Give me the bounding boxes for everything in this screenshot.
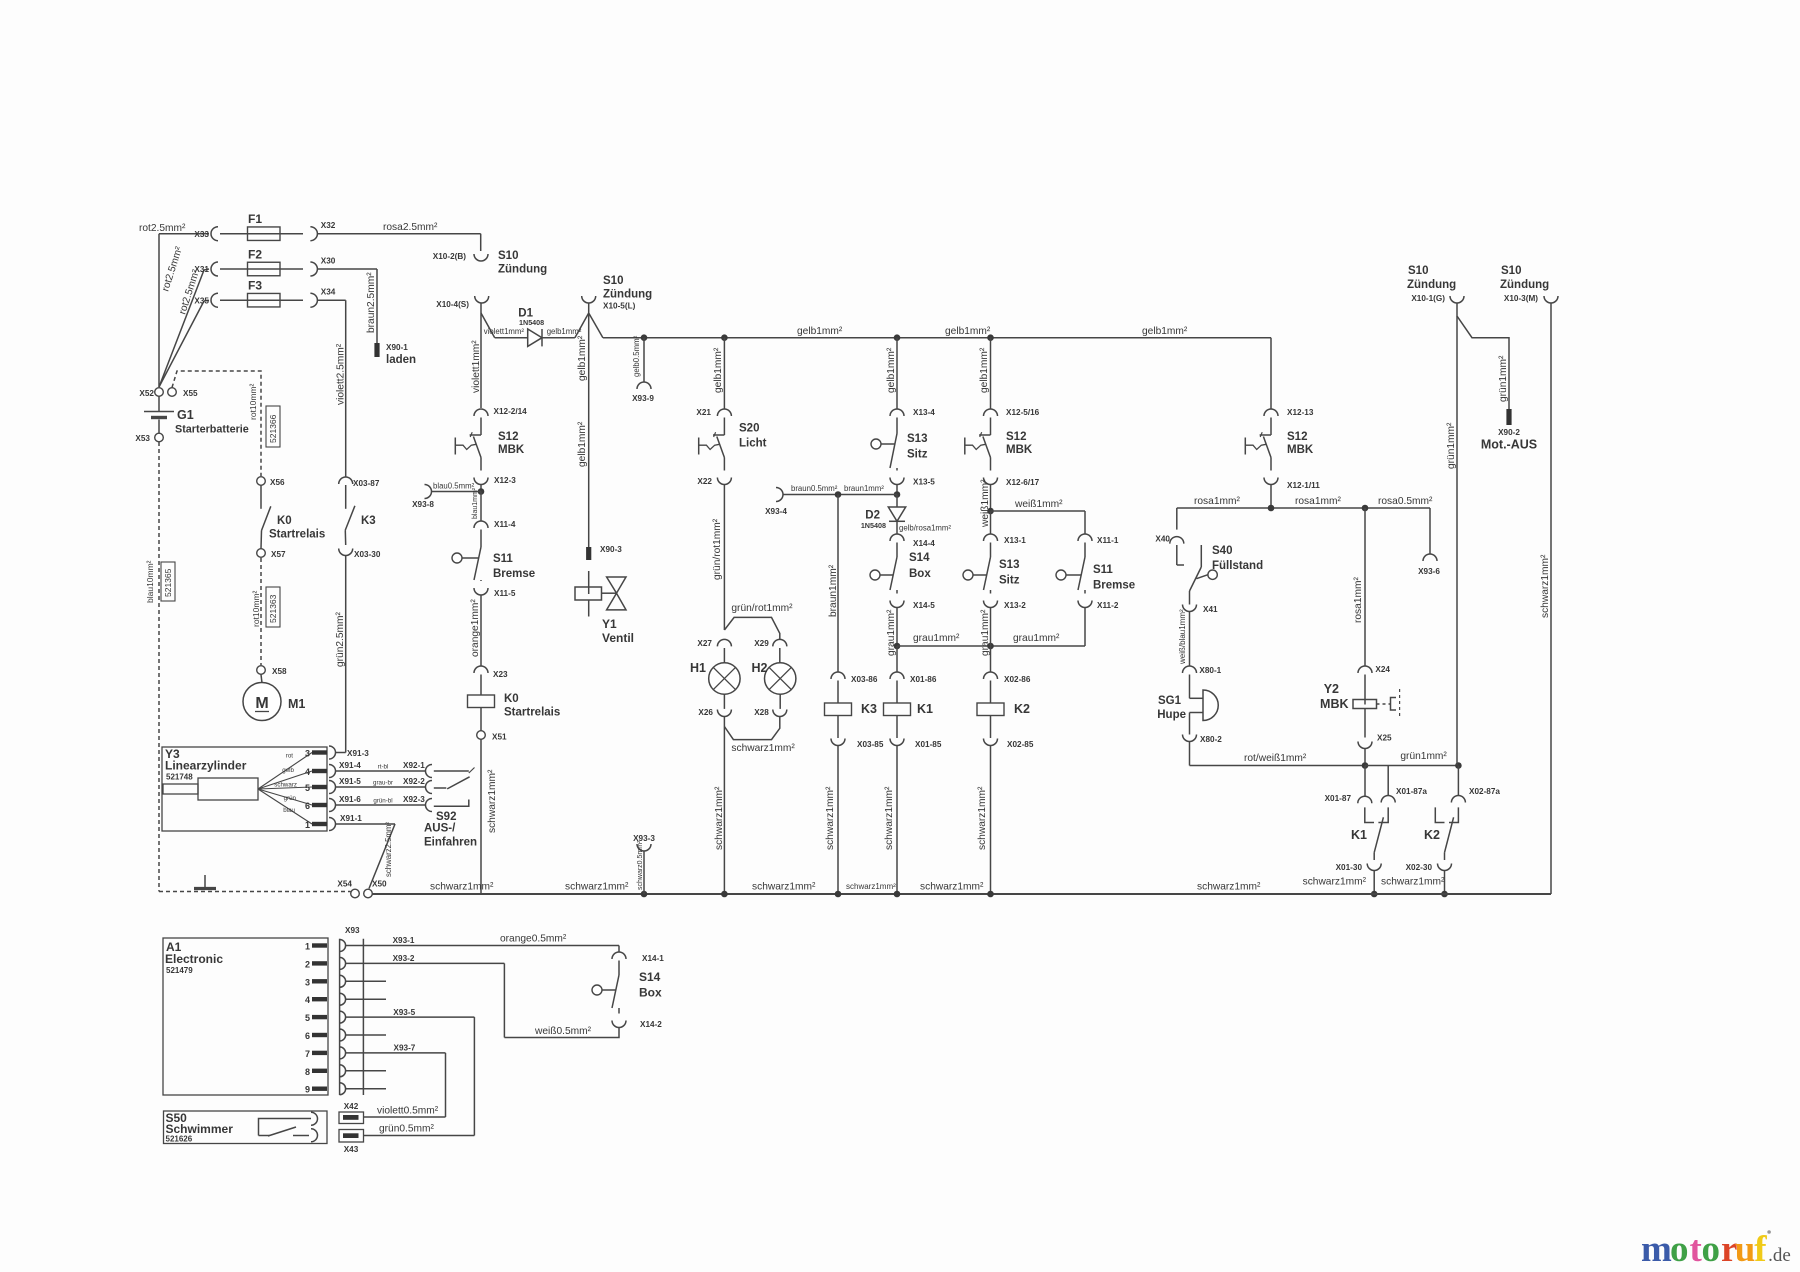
- svg-text:X93-8: X93-8: [412, 500, 434, 509]
- svg-text:weiß1mm²: weiß1mm²: [980, 479, 991, 528]
- svg-text:weiß0.5mm²: weiß0.5mm²: [534, 1026, 592, 1037]
- svg-text:X23: X23: [493, 670, 508, 679]
- svg-text:grün2.5mm²: grün2.5mm²: [335, 611, 346, 667]
- svg-text:G1: G1: [177, 408, 194, 422]
- svg-text:X93-5: X93-5: [393, 1008, 415, 1017]
- svg-text:schwarz1mm²: schwarz1mm²: [884, 786, 895, 850]
- svg-text:grün0.5mm²: grün0.5mm²: [379, 1124, 435, 1135]
- svg-text:rt-bl: rt-bl: [378, 764, 389, 771]
- svg-text:6: 6: [305, 801, 310, 811]
- svg-text:X03-85: X03-85: [857, 740, 884, 749]
- svg-text:F2: F2: [248, 248, 262, 262]
- svg-text:X14-2: X14-2: [640, 1020, 662, 1029]
- svg-text:X14-5: X14-5: [913, 601, 935, 610]
- svg-text:521366: 521366: [268, 414, 278, 443]
- svg-text:gelb0.5mm²: gelb0.5mm²: [632, 335, 641, 377]
- svg-text:X25: X25: [1377, 734, 1392, 743]
- svg-text:Startrelais: Startrelais: [504, 707, 560, 719]
- svg-text:S92: S92: [436, 811, 456, 823]
- svg-text:MBK: MBK: [1320, 697, 1348, 711]
- svg-text:rosa1mm²: rosa1mm²: [1295, 496, 1341, 507]
- svg-text:schwarz1mm²: schwarz1mm²: [1381, 877, 1445, 888]
- svg-text:X80-1: X80-1: [1199, 666, 1221, 675]
- svg-text:violett1mm²: violett1mm²: [484, 327, 525, 336]
- svg-text:S11: S11: [1093, 564, 1113, 576]
- svg-text:weiß1mm²: weiß1mm²: [1014, 499, 1063, 510]
- svg-text:blau1mm²: blau1mm²: [472, 487, 479, 519]
- svg-text:grau1mm²: grau1mm²: [1013, 633, 1060, 644]
- svg-text:X11-5: X11-5: [494, 589, 516, 598]
- svg-text:X12-2/14: X12-2/14: [494, 407, 528, 416]
- svg-text:X10-1(G): X10-1(G): [1411, 294, 1445, 303]
- svg-text:grau1mm²: grau1mm²: [980, 609, 991, 656]
- svg-text:X93-2: X93-2: [393, 954, 415, 963]
- svg-text:9: 9: [305, 1085, 310, 1095]
- svg-text:X43: X43: [344, 1145, 359, 1154]
- svg-text:rot2.5mm²: rot2.5mm²: [139, 223, 186, 234]
- svg-text:X41: X41: [1203, 605, 1218, 614]
- svg-text:X12-1/11: X12-1/11: [1287, 481, 1320, 490]
- svg-text:blau10mm²: blau10mm²: [145, 560, 155, 603]
- svg-text:schwarz1mm²: schwarz1mm²: [1303, 877, 1367, 888]
- svg-text:X11-1: X11-1: [1097, 536, 1119, 545]
- svg-text:grün: grün: [284, 795, 297, 802]
- svg-text:Zündung: Zündung: [603, 289, 652, 301]
- svg-text:gelb1mm²: gelb1mm²: [577, 335, 588, 381]
- svg-text:X12-6/17: X12-6/17: [1006, 478, 1040, 487]
- svg-text:F3: F3: [248, 279, 262, 293]
- svg-text:X54: X54: [337, 880, 352, 889]
- svg-text:gelb1mm²: gelb1mm²: [945, 326, 991, 337]
- svg-text:grün1mm²: grün1mm²: [1498, 355, 1509, 402]
- svg-text:X14-1: X14-1: [642, 954, 664, 963]
- svg-text:S14: S14: [909, 552, 930, 564]
- svg-text:X28: X28: [754, 708, 769, 717]
- svg-text:X12-5/16: X12-5/16: [1006, 408, 1040, 417]
- svg-text:X93-9: X93-9: [632, 394, 654, 403]
- svg-text:K2: K2: [1424, 828, 1440, 842]
- svg-text:S12: S12: [1287, 431, 1307, 443]
- svg-text:X10-3(M): X10-3(M): [1504, 294, 1538, 303]
- svg-text:X02-85: X02-85: [1007, 740, 1034, 749]
- svg-text:521626: 521626: [166, 1135, 193, 1144]
- svg-text:.de: .de: [1768, 1245, 1791, 1266]
- svg-text:grau1mm²: grau1mm²: [886, 609, 897, 656]
- svg-text:X34: X34: [321, 288, 336, 297]
- svg-text:rosa0.5mm²: rosa0.5mm²: [1378, 496, 1433, 507]
- svg-text:schwarz1mm²: schwarz1mm²: [825, 786, 836, 850]
- svg-text:MBK: MBK: [1287, 444, 1314, 456]
- svg-text:X93-4: X93-4: [765, 507, 787, 516]
- svg-text:o: o: [1702, 1229, 1721, 1270]
- svg-text:521479: 521479: [166, 966, 193, 975]
- svg-text:schwarz1mm²: schwarz1mm²: [565, 882, 629, 893]
- svg-text:4: 4: [305, 995, 310, 1005]
- svg-text:1: 1: [305, 820, 310, 830]
- svg-text:7: 7: [305, 1049, 310, 1059]
- svg-text:X11-4: X11-4: [494, 520, 516, 529]
- svg-text:8: 8: [305, 1067, 310, 1077]
- svg-text:grün/rot1mm²: grün/rot1mm²: [731, 603, 793, 614]
- svg-text:grün-bl: grün-bl: [373, 798, 392, 805]
- svg-text:braun0.5mm²: braun0.5mm²: [791, 484, 838, 493]
- svg-text:X35: X35: [194, 296, 209, 305]
- svg-text:Zündung: Zündung: [1407, 279, 1456, 291]
- svg-text:X10-4(S): X10-4(S): [436, 300, 469, 309]
- svg-text:S12: S12: [1006, 431, 1026, 443]
- svg-text:X58: X58: [272, 667, 287, 676]
- svg-text:X03-87: X03-87: [353, 479, 380, 488]
- svg-text:X53: X53: [135, 434, 150, 443]
- svg-text:X91-3: X91-3: [347, 749, 369, 758]
- svg-text:X03-86: X03-86: [851, 675, 878, 684]
- svg-text:rot/weiß1mm²: rot/weiß1mm²: [1244, 753, 1307, 764]
- svg-text:Zündung: Zündung: [1500, 279, 1549, 291]
- svg-text:X90-2: X90-2: [1498, 428, 1520, 437]
- svg-text:X01-87: X01-87: [1325, 794, 1352, 803]
- svg-text:Mot.-AUS: Mot.-AUS: [1481, 438, 1537, 452]
- svg-text:X33: X33: [194, 230, 209, 239]
- svg-text:schwarz1mm²: schwarz1mm²: [846, 882, 896, 891]
- svg-text:Bremse: Bremse: [493, 568, 535, 580]
- svg-text:rot10mm²: rot10mm²: [251, 590, 261, 627]
- svg-text:X56: X56: [270, 478, 285, 487]
- svg-text:1N5408: 1N5408: [519, 318, 544, 327]
- svg-text:X92-2: X92-2: [403, 777, 425, 786]
- svg-text:X92-3: X92-3: [403, 795, 425, 804]
- svg-text:3: 3: [305, 749, 310, 759]
- svg-text:Box: Box: [909, 568, 931, 580]
- svg-text:X90-1: X90-1: [386, 343, 408, 352]
- svg-text:S12: S12: [498, 431, 518, 443]
- svg-text:violett0.5mm²: violett0.5mm²: [377, 1106, 439, 1117]
- svg-text:X31: X31: [194, 265, 209, 274]
- svg-text:X80-2: X80-2: [1200, 735, 1222, 744]
- svg-text:gelb/rosa1mm²: gelb/rosa1mm²: [899, 524, 951, 533]
- svg-text:S13: S13: [999, 559, 1019, 571]
- svg-text:o: o: [1670, 1229, 1689, 1270]
- svg-text:H2: H2: [752, 661, 768, 675]
- svg-text:schwarz1mm²: schwarz1mm²: [487, 769, 498, 833]
- svg-text:rot: rot: [286, 753, 294, 760]
- svg-text:schwarz0.5mm²: schwarz0.5mm²: [637, 840, 644, 890]
- svg-text:MBK: MBK: [1006, 444, 1033, 456]
- svg-text:X02-87a: X02-87a: [1469, 787, 1500, 796]
- svg-text:S10: S10: [1501, 265, 1521, 277]
- svg-text:S10: S10: [498, 250, 518, 262]
- svg-text:MBK: MBK: [498, 444, 525, 456]
- svg-text:X11-2: X11-2: [1097, 601, 1119, 610]
- svg-text:orange0.5mm²: orange0.5mm²: [500, 934, 567, 945]
- svg-text:6: 6: [305, 1031, 310, 1041]
- svg-text:X27: X27: [697, 639, 712, 648]
- svg-text:3: 3: [305, 977, 310, 987]
- svg-text:Zündung: Zündung: [498, 264, 547, 276]
- svg-text:Licht: Licht: [739, 438, 767, 450]
- svg-text:gelb1mm²: gelb1mm²: [577, 421, 588, 467]
- svg-text:orange1mm²: orange1mm²: [470, 599, 481, 657]
- svg-text:violett1mm²: violett1mm²: [471, 340, 482, 393]
- svg-text:X01-85: X01-85: [915, 740, 942, 749]
- svg-text:braun2.5mm²: braun2.5mm²: [366, 272, 377, 333]
- svg-text:F1: F1: [248, 212, 262, 226]
- svg-text:K1: K1: [917, 702, 933, 716]
- svg-text:5: 5: [305, 783, 310, 793]
- svg-text:S10: S10: [603, 275, 623, 287]
- svg-text:X29: X29: [754, 639, 769, 648]
- svg-text:X13-1: X13-1: [1004, 536, 1026, 545]
- svg-text:X26: X26: [698, 708, 713, 717]
- svg-text:Y1: Y1: [602, 617, 617, 631]
- svg-text:S14: S14: [639, 970, 661, 984]
- svg-text:K0: K0: [277, 515, 292, 527]
- svg-text:X01-30: X01-30: [1336, 863, 1363, 872]
- svg-text:X93-1: X93-1: [393, 936, 415, 945]
- svg-text:Box: Box: [639, 986, 662, 1000]
- svg-text:grün1mm²: grün1mm²: [1446, 422, 1457, 469]
- svg-text:X92-1: X92-1: [403, 761, 425, 770]
- svg-text:X02-30: X02-30: [1406, 863, 1433, 872]
- svg-text:X24: X24: [1375, 665, 1390, 674]
- svg-text:S40: S40: [1212, 545, 1232, 557]
- svg-text:schwarz1mm²: schwarz1mm²: [1197, 882, 1261, 893]
- svg-text:AUS-/: AUS-/: [424, 823, 456, 835]
- svg-text:grün/rot1mm²: grün/rot1mm²: [712, 518, 723, 580]
- svg-text:S20: S20: [739, 423, 759, 435]
- svg-text:blau0.5mm²: blau0.5mm²: [433, 482, 475, 491]
- svg-text:X51: X51: [492, 733, 507, 742]
- svg-text:Ventil: Ventil: [602, 631, 634, 645]
- svg-text:2: 2: [305, 959, 310, 969]
- svg-text:m: m: [1641, 1229, 1672, 1270]
- svg-text:X10-2(B): X10-2(B): [433, 252, 466, 261]
- svg-text:X12-13: X12-13: [1287, 408, 1314, 417]
- svg-text:X01-87a: X01-87a: [1396, 787, 1427, 796]
- svg-text:f: f: [1754, 1229, 1767, 1270]
- svg-text:schwarz1mm²: schwarz1mm²: [752, 882, 816, 893]
- svg-text:SG1: SG1: [1158, 695, 1182, 707]
- svg-text:u: u: [1735, 1229, 1756, 1270]
- svg-text:rosa1mm²: rosa1mm²: [1194, 496, 1240, 507]
- svg-text:grau1mm²: grau1mm²: [913, 633, 960, 644]
- svg-text:X91-6: X91-6: [339, 795, 361, 804]
- svg-text:gelb1mm²: gelb1mm²: [886, 347, 897, 393]
- svg-text:Hupe: Hupe: [1157, 709, 1186, 721]
- svg-text:X52: X52: [139, 389, 154, 398]
- svg-text:M1: M1: [288, 697, 305, 711]
- svg-text:X50: X50: [372, 880, 387, 889]
- svg-text:schwarz1mm²: schwarz1mm²: [714, 786, 725, 850]
- svg-text:X30: X30: [321, 257, 336, 266]
- svg-text:X02-86: X02-86: [1004, 675, 1031, 684]
- svg-text:X55: X55: [183, 389, 198, 398]
- svg-text:M: M: [255, 695, 268, 712]
- svg-text:Einfahren: Einfahren: [424, 837, 477, 849]
- svg-text:X10-5(L): X10-5(L): [603, 302, 636, 311]
- svg-text:schwarz1mm²: schwarz1mm²: [920, 882, 984, 893]
- svg-text:K2: K2: [1014, 702, 1030, 716]
- svg-text:S10: S10: [1408, 265, 1428, 277]
- svg-text:X93: X93: [345, 926, 360, 935]
- svg-text:schwarz2.5mm²: schwarz2.5mm²: [384, 822, 393, 877]
- svg-text:gelb1mm²: gelb1mm²: [1142, 326, 1188, 337]
- svg-text:rosa1mm²: rosa1mm²: [1353, 577, 1364, 623]
- svg-text:weiß/blau1mm²: weiß/blau1mm²: [1178, 609, 1187, 665]
- svg-text:X91-5: X91-5: [339, 777, 361, 786]
- svg-text:H1: H1: [690, 661, 706, 675]
- svg-text:X14-4: X14-4: [913, 539, 935, 548]
- svg-text:X40: X40: [1155, 535, 1170, 544]
- svg-text:Startrelais: Startrelais: [269, 529, 325, 541]
- svg-text:rosa2.5mm²: rosa2.5mm²: [383, 222, 438, 233]
- svg-text:gelb: gelb: [282, 767, 294, 774]
- svg-text:X13-4: X13-4: [913, 408, 935, 417]
- svg-text:X13-2: X13-2: [1004, 601, 1026, 610]
- svg-text:X13-5: X13-5: [913, 478, 935, 487]
- svg-text:X93-6: X93-6: [1418, 567, 1440, 576]
- svg-text:schwarz1mm²: schwarz1mm²: [430, 882, 494, 893]
- svg-text:S13: S13: [907, 433, 927, 445]
- svg-text:gelb1mm²: gelb1mm²: [797, 326, 843, 337]
- svg-text:X93-7: X93-7: [394, 1044, 416, 1053]
- svg-text:521748: 521748: [166, 773, 193, 782]
- svg-text:1N5408: 1N5408: [861, 521, 886, 530]
- svg-text:grün1mm²: grün1mm²: [1400, 751, 1447, 762]
- svg-text:Bremse: Bremse: [1093, 580, 1135, 592]
- svg-text:gelb1mm²: gelb1mm²: [979, 347, 990, 393]
- svg-text:Y2: Y2: [1324, 682, 1339, 696]
- svg-text:X01-86: X01-86: [910, 675, 937, 684]
- svg-text:X91-4: X91-4: [339, 761, 361, 770]
- svg-text:X32: X32: [321, 221, 336, 230]
- svg-text:laden: laden: [386, 354, 416, 366]
- svg-text:X91-1: X91-1: [340, 814, 362, 823]
- svg-text:grau-br: grau-br: [373, 780, 393, 787]
- svg-text:schwarz: schwarz: [274, 782, 297, 789]
- svg-text:521363: 521363: [268, 594, 278, 623]
- svg-text:X57: X57: [271, 550, 286, 559]
- svg-text:Linearzylinder: Linearzylinder: [165, 759, 247, 773]
- svg-text:blau: blau: [283, 807, 295, 814]
- svg-text:schwarz1mm²: schwarz1mm²: [1540, 554, 1551, 618]
- svg-text:5: 5: [305, 1013, 310, 1023]
- svg-text:K1: K1: [1351, 828, 1367, 842]
- svg-text:X42: X42: [344, 1102, 359, 1111]
- svg-text:rot10mm²: rot10mm²: [248, 383, 258, 420]
- svg-text:521365: 521365: [163, 568, 173, 597]
- svg-text:violett2.5mm²: violett2.5mm²: [336, 343, 347, 405]
- svg-text:4: 4: [305, 767, 310, 777]
- svg-text:Sitz: Sitz: [999, 575, 1020, 587]
- svg-text:braun1mm²: braun1mm²: [844, 484, 884, 493]
- svg-text:Sitz: Sitz: [907, 449, 928, 461]
- svg-text:braun1mm²: braun1mm²: [828, 564, 839, 617]
- svg-text:X21: X21: [696, 408, 711, 417]
- svg-text:S11: S11: [493, 553, 513, 565]
- svg-text:1: 1: [305, 942, 310, 952]
- svg-text:X22: X22: [697, 477, 712, 486]
- svg-text:Electronic: Electronic: [165, 952, 223, 966]
- svg-text:Füllstand: Füllstand: [1212, 560, 1263, 572]
- svg-text:Starterbatterie: Starterbatterie: [175, 424, 249, 436]
- svg-text:X90-3: X90-3: [600, 545, 622, 554]
- svg-text:X12-3: X12-3: [494, 476, 516, 485]
- svg-text:K3: K3: [361, 515, 376, 527]
- svg-text:schwarz1mm²: schwarz1mm²: [731, 743, 795, 754]
- svg-text:gelb1mm²: gelb1mm²: [713, 347, 724, 393]
- svg-text:X03-30: X03-30: [354, 550, 381, 559]
- svg-text:schwarz1mm²: schwarz1mm²: [977, 786, 988, 850]
- svg-text:K0: K0: [504, 693, 519, 705]
- svg-text:K3: K3: [861, 702, 877, 716]
- svg-text:D2: D2: [865, 510, 880, 522]
